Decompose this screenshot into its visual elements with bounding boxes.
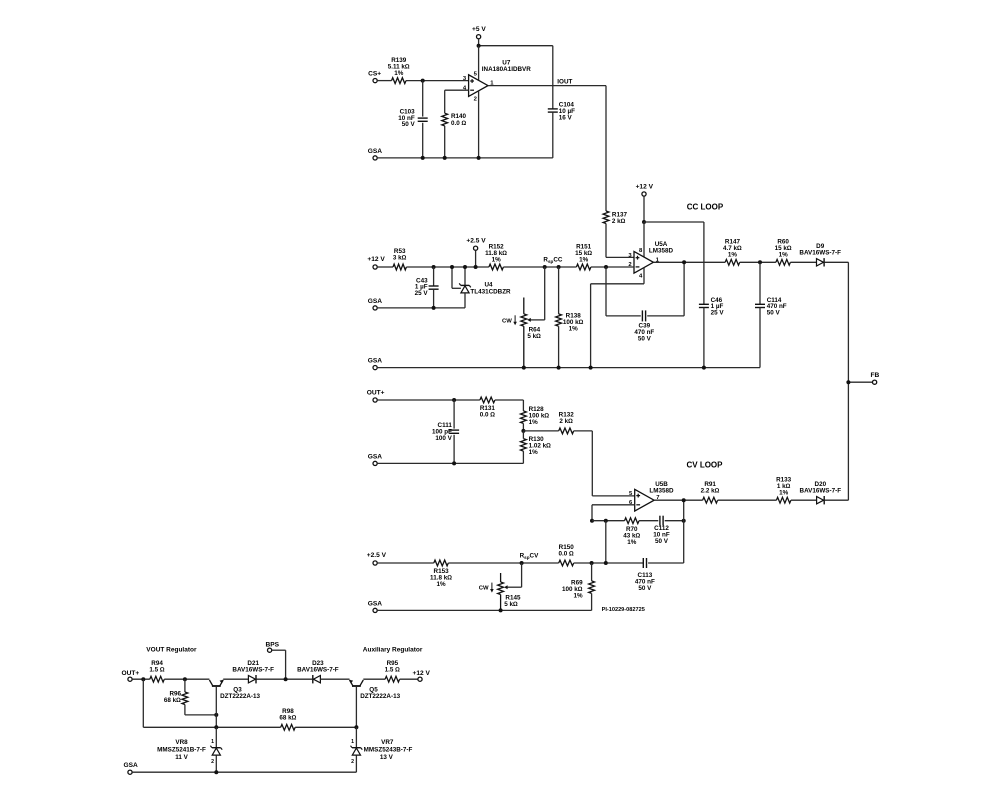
svg-text:5: 5: [474, 71, 478, 77]
wire: [522, 431, 524, 439]
wire: [377, 399, 480, 401]
diode D21: [232, 660, 274, 684]
ground terminal GSA (divider): [368, 453, 383, 465]
junction: [477, 44, 481, 48]
junction: [499, 608, 503, 612]
resistor R128: [521, 406, 550, 426]
wire: [574, 562, 606, 564]
svg-text:25 V: 25 V: [415, 290, 429, 297]
svg-text:INA180A1IDBVR: INA180A1IDBVR: [482, 66, 531, 73]
wire: [683, 500, 685, 521]
wire: [590, 284, 592, 368]
wire to R64 wiper: [544, 267, 546, 320]
wire U7 pin2: [478, 91, 480, 158]
svg-text:5 kΩ: 5 kΩ: [527, 333, 541, 340]
output row U5A: [653, 261, 725, 263]
junction: [450, 265, 454, 269]
svg-text:68 kΩ: 68 kΩ: [279, 715, 296, 722]
wire: [164, 678, 209, 680]
wire U5A pin3: [606, 256, 634, 258]
svg-text:LM358D: LM358D: [649, 487, 674, 494]
wire: [644, 221, 704, 223]
wire: [377, 307, 465, 309]
wire: [606, 562, 644, 564]
wire: [522, 451, 524, 463]
wire: [522, 423, 524, 431]
junction: [463, 265, 467, 269]
junction: [589, 366, 593, 370]
svg-text:BAV16WS-7-F: BAV16WS-7-F: [297, 667, 339, 674]
wire: [355, 755, 357, 772]
zener VR8 branch: [215, 727, 217, 747]
svg-text:GSA: GSA: [368, 298, 383, 305]
wire: [683, 521, 685, 563]
terminal CS+: [368, 70, 381, 82]
wire: [591, 593, 593, 610]
junction: [432, 306, 436, 310]
wire: [377, 609, 591, 611]
wire: [132, 771, 356, 773]
capacitor C112: [653, 516, 670, 545]
wire: [406, 266, 489, 268]
zener VR7 branch: [355, 727, 357, 747]
wire: [703, 222, 705, 304]
wire: [453, 400, 455, 429]
junction: [604, 519, 608, 523]
wire: [605, 224, 607, 258]
wire: [257, 678, 313, 680]
svg-text:2 kΩ: 2 kΩ: [559, 418, 573, 425]
svg-text:+12 V: +12 V: [367, 256, 385, 263]
wire: [223, 678, 248, 680]
svg-text:1%: 1%: [492, 256, 502, 263]
svg-text:BAV16WS-7-F: BAV16WS-7-F: [799, 250, 841, 257]
svg-text:3: 3: [463, 76, 467, 82]
junction: [604, 265, 608, 269]
wire: [558, 326, 560, 367]
label CC LOOP: [687, 202, 724, 211]
power terminal +5V: [472, 26, 486, 39]
wire: [740, 261, 776, 263]
zener VR7: [351, 746, 363, 755]
junction: [452, 461, 456, 465]
wire: [320, 678, 349, 680]
wire U7 pin5: [478, 46, 480, 81]
svg-text:IOUT: IOUT: [557, 78, 572, 85]
junction: [702, 366, 706, 370]
wire: [531, 319, 545, 321]
resistor R91: [701, 481, 720, 503]
wire Q5 base: [355, 687, 357, 727]
resistor R98: [279, 708, 296, 730]
capacitor C111: [432, 422, 459, 442]
svg-text:+2.5 V: +2.5 V: [367, 552, 387, 559]
row R98: [143, 679, 280, 727]
capacitor C43: [415, 277, 439, 297]
svg-text:2 kΩ: 2 kΩ: [612, 218, 626, 225]
wire: [444, 126, 446, 158]
power terminal +2.5V (CV): [367, 552, 387, 565]
shunt regulator U4 TL431CDBZR: [452, 267, 511, 308]
svg-text:1%: 1%: [728, 252, 738, 259]
svg-text:1%: 1%: [436, 581, 446, 588]
resistor R94: [149, 660, 165, 682]
svg-text:MMSZ5243B-7-F: MMSZ5243B-7-F: [364, 747, 413, 754]
resistor R150: [559, 544, 575, 566]
svg-text:CS+: CS+: [368, 70, 381, 77]
capacitor C114: [755, 297, 787, 317]
wire: [453, 435, 455, 464]
svg-text:1%: 1%: [569, 325, 579, 332]
wire: [639, 520, 658, 522]
svg-text:25 V: 25 V: [711, 309, 725, 316]
resistor R132: [523, 430, 558, 432]
wire: [591, 283, 644, 285]
svg-text:1%: 1%: [579, 256, 589, 263]
svg-text:50 V: 50 V: [655, 538, 669, 545]
junction: [682, 519, 686, 523]
junction: [421, 79, 425, 83]
svg-text:8: 8: [639, 248, 643, 254]
svg-text:1%: 1%: [573, 592, 583, 599]
wire: [363, 678, 385, 680]
wire: [433, 267, 435, 286]
wire: [448, 562, 558, 564]
op-amp U5A: [628, 241, 673, 280]
svg-text:2: 2: [474, 97, 478, 103]
svg-text:LM358D: LM358D: [649, 247, 674, 254]
svg-text:1%: 1%: [529, 449, 539, 456]
resistor R151: [575, 243, 592, 270]
labels VR8: [157, 739, 214, 765]
label Auxiliary Regulator: [363, 647, 423, 654]
power terminal +12V (U5A): [636, 184, 654, 196]
resistor R95: [385, 660, 401, 682]
wire: [272, 649, 286, 651]
wire: [507, 586, 521, 588]
wire: [377, 266, 393, 268]
svg-text:50 V: 50 V: [402, 121, 416, 128]
wire: [825, 261, 849, 263]
junction: [543, 265, 547, 269]
potentiometer R64: [502, 298, 541, 368]
resistor R70: [623, 518, 640, 546]
junction: [183, 677, 187, 681]
svg-text:16 V: 16 V: [559, 114, 573, 121]
diode D20: [800, 481, 842, 505]
wire: [522, 400, 524, 411]
svg-text:1%: 1%: [394, 70, 404, 77]
capacitor C113: [635, 558, 655, 592]
output row U5B: [654, 499, 703, 501]
svg-text:BAV16WS-7-F: BAV16WS-7-F: [232, 667, 274, 674]
junction: [214, 713, 218, 717]
wire: [478, 39, 480, 46]
svg-text:GSA: GSA: [368, 600, 383, 607]
svg-text:RspCC: RspCC: [543, 257, 562, 264]
junction: [521, 429, 525, 433]
junction: [452, 398, 456, 402]
resistor R69: [562, 579, 595, 599]
zener VR8: [210, 746, 222, 755]
wire U7 inverting input: [445, 89, 469, 91]
wire: [406, 80, 469, 82]
svg-text:Auxiliary Regulator: Auxiliary Regulator: [363, 647, 423, 654]
ground terminal GSA (TL431): [368, 298, 383, 310]
resistor R132: [559, 412, 575, 434]
node RspCC: [543, 257, 562, 264]
svg-text:GSA: GSA: [368, 148, 383, 155]
wire: [703, 308, 705, 368]
wire: [759, 308, 761, 368]
resistor R96: [184, 679, 186, 692]
junction: [141, 677, 145, 681]
wire: [791, 499, 817, 501]
wire: [648, 562, 684, 564]
svg-text:4: 4: [639, 273, 643, 279]
svg-text:2.2 kΩ: 2.2 kΩ: [701, 488, 720, 495]
wire: [479, 45, 553, 47]
wire: [444, 90, 446, 113]
svg-text:U4: U4: [484, 281, 493, 288]
svg-text:1%: 1%: [779, 252, 789, 259]
label CV LOOP: [686, 460, 723, 469]
junction: [214, 770, 218, 774]
terminal OUT+ (divider): [367, 390, 385, 402]
svg-text:1.5 Ω: 1.5 Ω: [149, 667, 165, 674]
junction: [474, 265, 478, 269]
svg-text:2: 2: [211, 759, 214, 765]
wire: [422, 123, 424, 158]
svg-text:1%: 1%: [779, 490, 789, 497]
wire: [295, 726, 356, 728]
svg-text:0.0 Ω: 0.0 Ω: [480, 412, 496, 419]
resistor R152: [485, 243, 507, 270]
wire: [475, 250, 477, 267]
junction: [557, 366, 561, 370]
wire: [433, 289, 435, 308]
resistor R140: [442, 113, 467, 127]
transistor Q5: [349, 680, 400, 700]
svg-text:TL431CDBZR: TL431CDBZR: [470, 289, 511, 296]
svg-text:DZT2222A-13: DZT2222A-13: [220, 693, 260, 700]
wire U5B pin6: [592, 504, 635, 506]
svg-text:0.0 Ω: 0.0 Ω: [559, 550, 575, 557]
wire: [422, 81, 424, 117]
svg-text:BAV16WS-7-F: BAV16WS-7-F: [800, 488, 842, 495]
power terminal +2.5V (CC): [466, 238, 486, 251]
svg-text:1%: 1%: [627, 539, 637, 546]
label PI-10229-082725: [602, 607, 645, 613]
wire U5A pin8: [643, 222, 645, 257]
svg-text:GSA: GSA: [368, 453, 383, 460]
wire: [377, 462, 523, 464]
wire: [718, 499, 777, 501]
wire: [552, 112, 554, 158]
svg-text:CC LOOP: CC LOOP: [687, 202, 724, 211]
wire U5A pin2: [591, 266, 634, 268]
svg-text:OUT+: OUT+: [122, 670, 140, 677]
wire: [377, 80, 391, 82]
wire: [591, 505, 593, 521]
wire: [285, 650, 287, 679]
wire: [643, 196, 645, 222]
svg-text:3 kΩ: 3 kΩ: [393, 254, 407, 261]
wire U5B pin5: [592, 495, 634, 497]
resistor R133: [776, 477, 792, 504]
wire: [591, 431, 593, 496]
node RspCV: [520, 552, 539, 559]
wire: [759, 262, 761, 304]
junction: [421, 156, 425, 160]
resistor R130: [521, 436, 552, 456]
svg-text:68 kΩ: 68 kΩ: [164, 697, 181, 704]
resistor R138: [556, 312, 584, 332]
svg-text:2: 2: [351, 759, 354, 765]
wire: [558, 267, 560, 314]
svg-text:5 kΩ: 5 kΩ: [504, 601, 518, 608]
svg-text:1: 1: [351, 739, 354, 745]
svg-text:OUT+: OUT+: [367, 390, 385, 397]
capacitor C39 feedback: [606, 262, 684, 342]
svg-text:BPS: BPS: [266, 641, 280, 648]
svg-text:50 V: 50 V: [638, 585, 652, 592]
wire: [132, 678, 150, 680]
wire: [215, 755, 217, 772]
labels VR7: [351, 739, 412, 765]
feedback capacitor C113 row: [605, 521, 607, 563]
capacitor C46: [699, 297, 724, 317]
svg-text:50 V: 50 V: [767, 309, 781, 316]
wire: [503, 266, 576, 268]
svg-text:13 V: 13 V: [380, 754, 394, 761]
transistor Q3: [209, 680, 260, 700]
svg-text:1: 1: [211, 739, 214, 745]
ground terminal GSA (CV row): [368, 600, 383, 612]
label VOUT Regulator: [146, 647, 197, 654]
svg-text:MMSZ5241B-7-F: MMSZ5241B-7-F: [157, 747, 206, 754]
svg-text:VOUT Regulator: VOUT Regulator: [146, 647, 197, 654]
junction: [443, 156, 447, 160]
svg-text:RspCV: RspCV: [520, 552, 539, 559]
junction: [520, 561, 524, 565]
wire: [184, 705, 186, 715]
wire: [495, 399, 524, 401]
ground terminal GSA: [368, 148, 383, 160]
junction: [214, 725, 218, 729]
junction: [682, 260, 686, 264]
op-amp U5B: [629, 481, 674, 511]
svg-text:FB: FB: [871, 372, 880, 379]
svg-text:50 V: 50 V: [638, 335, 652, 342]
svg-text:100 V: 100 V: [435, 435, 452, 442]
resistor R147: [723, 239, 742, 266]
capacitor C104: [548, 102, 575, 122]
svg-text:+12 V: +12 V: [636, 184, 654, 191]
capacitor C103: [398, 109, 427, 129]
wire: [552, 46, 554, 109]
ground terminal GSA (CC row): [368, 358, 383, 370]
junction: [354, 725, 358, 729]
resistor R153: [430, 560, 452, 588]
svg-text:0.0 Ω: 0.0 Ω: [451, 120, 467, 127]
power terminal +12V (ref): [367, 256, 385, 269]
junction: [846, 380, 850, 384]
resistor R139: [388, 57, 410, 84]
wire: [665, 520, 684, 522]
svg-text:VR8: VR8: [175, 739, 188, 746]
svg-text:PI-10229-082725: PI-10229-082725: [602, 607, 645, 613]
junction: [590, 519, 594, 523]
terminal BPS: [266, 641, 280, 652]
svg-text:GSA: GSA: [368, 358, 383, 365]
resistor R131: [480, 397, 496, 419]
junction: [432, 265, 436, 269]
svg-text:CV LOOP: CV LOOP: [686, 460, 723, 469]
node IOUT: [488, 78, 606, 85]
junction: [758, 260, 762, 264]
wire: [400, 678, 418, 680]
resistor R60: [775, 239, 792, 266]
feedback row R70 C112: [592, 520, 625, 522]
wire IOUT to R137: [605, 86, 607, 211]
junction: [590, 561, 594, 565]
svg-text:CW: CW: [479, 586, 489, 592]
svg-text:VR7: VR7: [381, 739, 394, 746]
svg-text:11 V: 11 V: [175, 754, 188, 761]
wire: [574, 430, 593, 432]
resistor R96: [164, 690, 188, 704]
wire: [377, 562, 434, 564]
wire: [825, 499, 849, 501]
resistor R137: [603, 211, 627, 225]
wire to R145 wiper: [521, 563, 523, 587]
junction: [477, 156, 481, 160]
wire Q3 base: [215, 687, 217, 727]
junction: [284, 677, 288, 681]
wire: [377, 157, 553, 159]
resistor R53: [393, 248, 407, 270]
junction: [557, 265, 561, 269]
svg-text:+12 V: +12 V: [412, 670, 430, 677]
svg-text:+5 V: +5 V: [472, 26, 486, 33]
node FB: [848, 262, 879, 500]
wire: [185, 714, 216, 716]
svg-text:DZT2222A-13: DZT2222A-13: [360, 693, 400, 700]
diode D9: [799, 243, 841, 267]
terminal OUT+ (regulator): [122, 670, 140, 681]
potentiometer R145: [479, 573, 521, 610]
svg-text:+2.5 V: +2.5 V: [466, 238, 486, 245]
junction: [522, 366, 526, 370]
diode D23: [297, 660, 339, 684]
svg-text:CW: CW: [502, 318, 512, 324]
svg-text:1.5 Ω: 1.5 Ω: [385, 667, 401, 674]
ground terminal GSA (regulator): [123, 762, 138, 774]
wire U5A pin4: [643, 268, 645, 284]
wire: [377, 367, 760, 369]
resistor R69: [591, 563, 593, 581]
junction: [682, 498, 686, 502]
op-amp U7: [463, 59, 531, 102]
svg-text:GSA: GSA: [123, 762, 138, 769]
svg-text:1%: 1%: [529, 419, 539, 426]
wire: [790, 261, 816, 263]
power terminal +12V (aux): [412, 670, 430, 681]
junction: [642, 220, 646, 224]
junction: [604, 561, 608, 565]
